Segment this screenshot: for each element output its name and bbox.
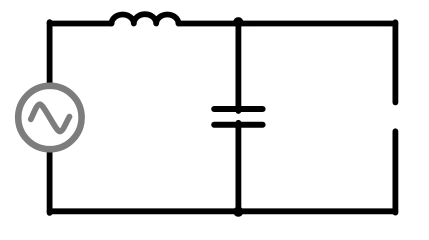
- capacitor C1 bottom plate: [214, 122, 262, 128]
- wire: capacitor branch upper lead: [235, 24, 241, 112]
- AC source V1 circle: [18, 86, 81, 149]
- wire: capacitor branch lower lead: [235, 123, 241, 212]
- capacitor C1 top plate: [214, 106, 262, 112]
- wire: right rail upper segment to open gap: [392, 22, 398, 102]
- node: bottom junction dot: [233, 207, 243, 217]
- AC source V1 sine symbol: [31, 104, 70, 131]
- wire: top rail left segment: [50, 21, 112, 27]
- wire: right rail lower segment from open gap: [392, 131, 398, 212]
- node: top junction dot: [233, 17, 243, 27]
- wire: left rail upper segment (source to top-left corner): [47, 22, 53, 83]
- wire: top rail right segment: [179, 21, 396, 27]
- wire: bottom rail: [50, 208, 396, 214]
- inductor L1: [112, 14, 179, 23]
- wire: left rail lower segment (source to bottom-left corner): [47, 152, 53, 213]
